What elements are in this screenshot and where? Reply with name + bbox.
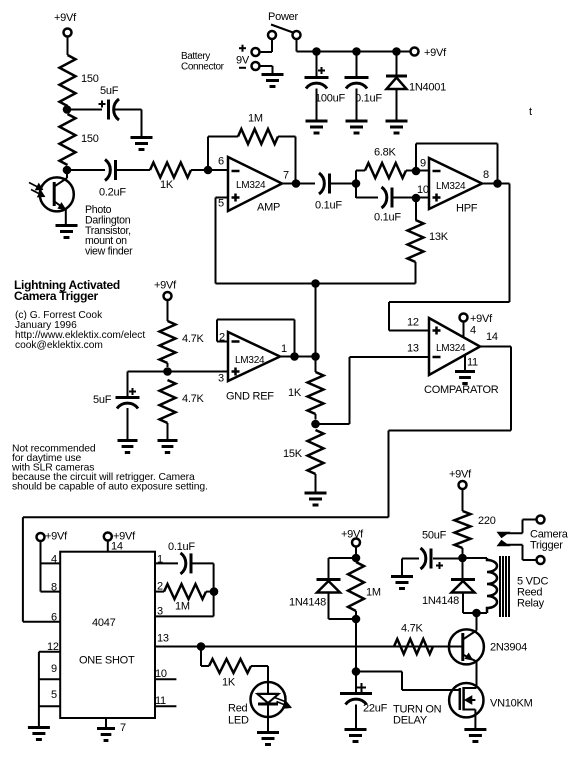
svg-text:2: 2 [157, 581, 163, 593]
svg-text:+9Vf: +9Vf [154, 280, 177, 292]
svg-text:1: 1 [281, 343, 287, 355]
svg-text:4: 4 [470, 325, 476, 337]
svg-text:COMPARATOR: COMPARATOR [424, 384, 499, 396]
svg-text:3: 3 [157, 606, 163, 618]
svg-text:LM324: LM324 [235, 355, 265, 366]
svg-text:0.1uF: 0.1uF [315, 200, 342, 212]
svg-text:LED: LED [228, 715, 249, 727]
svg-text:0.1uF: 0.1uF [355, 93, 382, 105]
svg-text:1N4148: 1N4148 [422, 595, 459, 607]
svg-text:0.2uF: 0.2uF [99, 187, 126, 199]
svg-text:13: 13 [157, 633, 169, 645]
svg-text:4.7K: 4.7K [182, 333, 205, 345]
svg-text:12: 12 [47, 641, 59, 653]
svg-text:Relay: Relay [517, 598, 545, 610]
svg-text:6: 6 [51, 612, 57, 624]
svg-text:5: 5 [218, 198, 224, 210]
svg-text:Red: Red [228, 703, 248, 715]
svg-text:5uF: 5uF [93, 394, 112, 406]
svg-text:7: 7 [283, 170, 289, 182]
svg-text:10: 10 [155, 668, 167, 680]
svg-text:+9Vf: +9Vf [54, 12, 77, 24]
svg-text:4.7K: 4.7K [401, 623, 424, 635]
svg-text:14: 14 [486, 331, 498, 343]
svg-text:HPF: HPF [456, 203, 478, 215]
svg-text:Connector: Connector [181, 62, 225, 73]
svg-text:t: t [529, 106, 532, 118]
svg-text:1K: 1K [160, 179, 174, 191]
svg-text:100uF: 100uF [315, 93, 345, 105]
svg-text:1N4148: 1N4148 [289, 597, 326, 609]
svg-text:LM324: LM324 [436, 181, 466, 192]
svg-text:9V: 9V [236, 55, 250, 67]
svg-text:1: 1 [157, 554, 163, 566]
svg-text:15K: 15K [283, 448, 303, 460]
svg-text:0.1uF: 0.1uF [374, 212, 401, 224]
svg-text:1M: 1M [175, 601, 190, 613]
svg-text:1K: 1K [288, 387, 302, 399]
svg-text:LM324: LM324 [236, 180, 266, 191]
svg-text:4047: 4047 [92, 617, 116, 629]
svg-text:13K: 13K [429, 231, 449, 243]
svg-text:3: 3 [218, 373, 224, 385]
svg-text:1K: 1K [222, 677, 236, 689]
svg-text:view finder: view finder [85, 246, 133, 258]
svg-text:+9Vf: +9Vf [470, 313, 493, 325]
svg-text:DELAY: DELAY [393, 715, 428, 727]
svg-text:4.7K: 4.7K [182, 393, 205, 405]
svg-text:+9Vf: +9Vf [449, 469, 472, 481]
svg-text:AMP: AMP [257, 202, 280, 214]
svg-text:150: 150 [81, 73, 99, 85]
svg-text:11: 11 [155, 695, 166, 707]
svg-text:VN10KM: VN10KM [490, 698, 533, 710]
svg-text:14: 14 [111, 541, 123, 553]
svg-text:1M: 1M [248, 113, 263, 125]
svg-text:6.8K: 6.8K [374, 147, 397, 159]
svg-text:11: 11 [467, 357, 478, 369]
svg-text:9: 9 [51, 663, 57, 675]
svg-text:ONE SHOT: ONE SHOT [79, 655, 135, 667]
svg-text:2N3904: 2N3904 [490, 642, 527, 654]
svg-text:Camera Trigger: Camera Trigger [14, 289, 98, 303]
svg-text:1N4001: 1N4001 [409, 82, 446, 94]
svg-text:13: 13 [407, 343, 419, 355]
svg-text:6: 6 [218, 156, 224, 168]
svg-text:8: 8 [51, 582, 57, 594]
svg-text:12: 12 [407, 317, 419, 329]
svg-text:4: 4 [51, 554, 57, 566]
svg-text:10: 10 [417, 184, 429, 196]
svg-text:Battery: Battery [181, 51, 210, 62]
svg-text:9: 9 [420, 158, 426, 170]
svg-text:5: 5 [51, 689, 57, 701]
svg-text:8: 8 [483, 169, 489, 181]
svg-text:7: 7 [120, 722, 126, 734]
svg-text:GND REF: GND REF [226, 391, 274, 403]
svg-text:should be capable of auto expo: should be capable of auto exposure setti… [12, 481, 208, 492]
svg-text:220: 220 [478, 515, 496, 527]
svg-text:LM324: LM324 [436, 343, 466, 354]
svg-text:+9Vf: +9Vf [45, 531, 68, 543]
svg-text:+9Vf: +9Vf [424, 47, 447, 59]
svg-text:50uF: 50uF [422, 530, 447, 542]
svg-text:22uF: 22uF [363, 703, 388, 715]
svg-text:0.1uF: 0.1uF [168, 541, 195, 553]
svg-text:150: 150 [81, 133, 99, 145]
svg-text:5uF: 5uF [100, 85, 119, 97]
svg-text:Trigger: Trigger [530, 540, 563, 552]
svg-text:cook@eklektix.com: cook@eklektix.com [15, 340, 103, 351]
svg-text:Power: Power [268, 11, 299, 23]
svg-text:1M: 1M [366, 587, 381, 599]
